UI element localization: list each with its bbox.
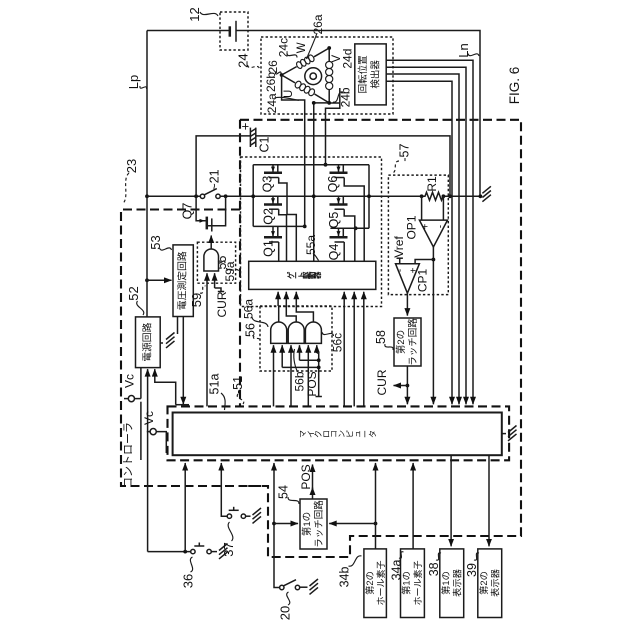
driver input arrows from microcomputer bbox=[343, 292, 345, 407]
transistor Q1 bbox=[272, 226, 274, 236]
transistor Q5 bbox=[338, 196, 340, 203]
wire switch 20 to microcomputer and latch 54 bbox=[274, 463, 280, 588]
microcomputer ground bbox=[502, 433, 506, 435]
transistor Q3 bbox=[272, 165, 274, 172]
svg-text:-: - bbox=[395, 269, 406, 272]
svg-text:26b: 26b bbox=[264, 72, 278, 92]
wire Lp vertical down bbox=[146, 31, 148, 197]
motor delta winding edges bbox=[314, 48, 329, 57]
svg-text:CUR: CUR bbox=[215, 291, 229, 317]
svg-text:検出器: 検出器 bbox=[370, 60, 382, 89]
wire to switch 36 bbox=[148, 551, 191, 553]
motor phase lead to mid rail bbox=[314, 103, 329, 261]
svg-text:表示器: 表示器 bbox=[490, 568, 501, 597]
dashed box 23 controller bbox=[121, 210, 268, 487]
AND gate output wires bbox=[278, 306, 280, 322]
display 38 box bbox=[440, 549, 464, 618]
wire 53 to ground bbox=[177, 317, 179, 335]
wire microcomputer to display 39 bbox=[488, 455, 490, 546]
Q1 gate lead bbox=[278, 242, 280, 261]
svg-text:+: + bbox=[420, 224, 431, 230]
svg-text:20: 20 bbox=[278, 606, 293, 620]
rotor 26 bbox=[305, 68, 322, 85]
svg-text:36: 36 bbox=[181, 574, 196, 588]
svg-text:52: 52 bbox=[126, 286, 141, 300]
dashed box 51 microcomputer unit bbox=[168, 406, 510, 460]
svg-text:器: 器 bbox=[313, 271, 322, 280]
AND gate 56a bbox=[271, 322, 287, 343]
transistor Q4 bbox=[338, 228, 340, 236]
battery 12 plates bbox=[229, 26, 232, 36]
svg-text:ホール素子: ホール素子 bbox=[412, 560, 423, 605]
wire battery into 52 bbox=[146, 196, 148, 317]
microcomputer 51a box bbox=[173, 413, 502, 456]
wire below Vc terminal 1 bbox=[140, 402, 142, 460]
svg-text:Q6: Q6 bbox=[326, 176, 340, 193]
svg-text:FIG. 6: FIG. 6 bbox=[507, 67, 522, 105]
svg-text:59: 59 bbox=[189, 293, 204, 307]
svg-text:54: 54 bbox=[277, 485, 291, 499]
latch 54 arrow from hall line bbox=[374, 522, 378, 526]
wire into 52 from right bbox=[155, 369, 176, 405]
comparator CP1 bbox=[396, 264, 420, 294]
latch circuit 58 box bbox=[394, 318, 421, 366]
svg-text:回転位置: 回転位置 bbox=[357, 55, 369, 93]
dashed box 55 inverter bbox=[241, 157, 382, 307]
op-amp OP1 bbox=[419, 220, 447, 247]
ground rail right bbox=[479, 194, 483, 198]
CUR branch arrow bbox=[394, 385, 408, 387]
Q2 gate lead bbox=[279, 209, 287, 261]
display 39 box bbox=[478, 549, 502, 618]
transistor Q2 bbox=[272, 196, 274, 203]
Vref lead bbox=[399, 258, 401, 264]
switch 21 bbox=[145, 194, 149, 198]
svg-text:26: 26 bbox=[266, 60, 280, 74]
svg-text:24a: 24a bbox=[265, 93, 279, 113]
svg-text:POS: POS bbox=[305, 371, 319, 396]
svg-text:POS: POS bbox=[299, 464, 313, 489]
AND gate 59a bbox=[204, 249, 219, 271]
rotation position detector box 24d bbox=[355, 44, 386, 105]
svg-text:Lp: Lp bbox=[126, 75, 141, 89]
dashed box 1 outline bbox=[240, 120, 521, 557]
wire battery right to Ln corner bbox=[236, 31, 480, 197]
CP1 output to latch 58 bbox=[406, 293, 408, 315]
svg-text:+: + bbox=[238, 123, 253, 131]
svg-text:~21: ~21 bbox=[208, 169, 222, 190]
switch 20 bbox=[280, 585, 284, 589]
wire hall 34a to microcomputer bbox=[412, 463, 414, 549]
svg-text:Q7: Q7 bbox=[181, 203, 195, 220]
switch 37 bbox=[227, 514, 231, 518]
svg-text:24c: 24c bbox=[276, 38, 290, 57]
node H3 right bbox=[330, 227, 369, 229]
svg-text:37: 37 bbox=[221, 542, 236, 556]
latch 54 POS output to microcomputer bbox=[312, 488, 314, 500]
svg-text:Q3: Q3 bbox=[261, 176, 275, 193]
resistor R1 bbox=[422, 192, 447, 200]
CUR stub at 59a bbox=[215, 288, 221, 292]
svg-text:CUR: CUR bbox=[375, 369, 389, 395]
wire battery left Lp bbox=[147, 30, 230, 32]
svg-text:第1の: 第1の bbox=[301, 512, 313, 536]
inverter top rail bbox=[253, 164, 369, 166]
switch 37 ground bbox=[246, 515, 251, 517]
battery 12 dashed enclosure bbox=[220, 12, 248, 50]
svg-text:第2の: 第2の bbox=[364, 571, 375, 595]
svg-text:56: 56 bbox=[244, 323, 258, 337]
svg-text:ラッチ回路: ラッチ回路 bbox=[313, 500, 325, 548]
motor 24 dashed enclosure bbox=[261, 37, 393, 114]
Q6 gate lead bbox=[344, 178, 364, 262]
svg-text:U: U bbox=[283, 90, 295, 98]
wire microcomputer to display 38 bbox=[450, 455, 452, 546]
AND gate left inputs from microcomputer bbox=[273, 345, 275, 406]
latch 58 output wire CUR bbox=[406, 366, 408, 404]
svg-text:59a: 59a bbox=[223, 261, 237, 281]
voltage measuring circuit 53 box bbox=[173, 245, 193, 317]
Q4 gate lead bbox=[343, 242, 345, 261]
svg-text:タ: タ bbox=[369, 430, 378, 438]
gate driver box 55a bbox=[249, 261, 376, 289]
svg-text:24d: 24d bbox=[341, 49, 355, 69]
inverter left bypass wire bbox=[252, 165, 254, 227]
wire C1 to rail right bbox=[256, 136, 450, 196]
svg-text:56a: 56a bbox=[242, 299, 256, 319]
wire 52 to Vc terminal 1 bbox=[140, 368, 142, 399]
svg-text:ラッチ回路: ラッチ回路 bbox=[407, 318, 419, 366]
svg-text:55a: 55a bbox=[304, 235, 318, 255]
svg-text:第1の: 第1の bbox=[440, 571, 451, 595]
svg-text:56c: 56c bbox=[331, 333, 345, 352]
svg-text:23: 23 bbox=[124, 159, 139, 173]
svg-text:26a: 26a bbox=[311, 14, 325, 34]
wire OP1 out to CP1 bbox=[415, 260, 433, 264]
ground at 52 right bbox=[160, 342, 163, 344]
OP1 input leads bbox=[421, 196, 423, 220]
POS net wiring bbox=[282, 366, 319, 368]
Q7 gate lead bbox=[211, 226, 213, 232]
svg-text:Q4: Q4 bbox=[327, 244, 341, 261]
dashed box 56 bbox=[260, 306, 332, 371]
svg-text:OP1: OP1 bbox=[405, 215, 419, 239]
svg-text:Q5: Q5 bbox=[327, 212, 341, 229]
svg-text:34a: 34a bbox=[389, 560, 403, 581]
svg-text:Q2: Q2 bbox=[262, 208, 276, 225]
svg-text:58: 58 bbox=[374, 330, 388, 344]
coil 26a winding W bbox=[307, 54, 315, 63]
svg-text:第2の: 第2の bbox=[478, 571, 489, 595]
Q5 gate lead bbox=[344, 209, 355, 261]
rotation detector lines from detector to microcomputer bbox=[386, 60, 473, 404]
Vc terminal 1 bbox=[124, 398, 128, 400]
wire into 52 from switch line bbox=[147, 369, 149, 551]
svg-text:12: 12 bbox=[187, 7, 202, 21]
wire switch 37 to microcomputer bbox=[221, 463, 227, 516]
svg-text:-51: -51 bbox=[231, 376, 245, 394]
driver input arrows from AND gates bbox=[277, 292, 279, 306]
svg-text:第2の: 第2の bbox=[395, 330, 407, 354]
Q3 gate lead bbox=[279, 178, 297, 262]
svg-text:34b: 34b bbox=[337, 567, 351, 588]
svg-text:W: W bbox=[296, 42, 308, 53]
svg-text:表示器: 表示器 bbox=[452, 568, 463, 597]
59a output arrow to Q7 gate bbox=[210, 236, 212, 250]
OP1 output wire bbox=[432, 247, 434, 404]
svg-text:電源回路: 電源回路 bbox=[140, 322, 153, 361]
svg-text:-: - bbox=[436, 225, 447, 228]
motor phase wire to inverter top rail bbox=[326, 103, 340, 165]
hall element 34a box bbox=[401, 549, 425, 618]
coil 26b winding U bbox=[282, 75, 296, 83]
node H3 left bbox=[253, 225, 305, 227]
wire hall 34b to microcomputer bbox=[375, 463, 377, 549]
capacitor C1 wire positive bbox=[196, 136, 250, 196]
svg-text:53: 53 bbox=[148, 235, 163, 249]
svg-text:-57: -57 bbox=[398, 144, 412, 162]
svg-text:51a: 51a bbox=[208, 374, 222, 395]
switch 36 ground bbox=[211, 551, 217, 553]
dashed box 57 bbox=[388, 175, 448, 295]
dashed box 59 bbox=[197, 242, 235, 283]
transistor Q7 bypass bbox=[196, 196, 206, 221]
svg-text:39: 39 bbox=[465, 563, 479, 577]
coil 26c winding V bbox=[328, 48, 330, 62]
svg-text:Q1: Q1 bbox=[262, 240, 276, 257]
svg-text:Vref: Vref bbox=[392, 236, 406, 258]
svg-text:R1: R1 bbox=[425, 176, 439, 192]
svg-text:コントローラ: コントローラ bbox=[123, 422, 135, 488]
svg-text:電圧測定回路: 電圧測定回路 bbox=[176, 251, 189, 310]
switch 20 ground bbox=[300, 586, 308, 588]
AND gate 56c bbox=[305, 322, 321, 343]
svg-text:CP1: CP1 bbox=[416, 269, 430, 293]
59a inputs bbox=[206, 273, 208, 406]
svg-text:C1: C1 bbox=[258, 136, 272, 152]
svg-text:Vc: Vc bbox=[142, 411, 156, 425]
svg-text:Vc: Vc bbox=[123, 374, 137, 388]
motor terminal dots bbox=[280, 73, 284, 77]
wire switch 36 to microcomputer bbox=[184, 463, 186, 552]
latch circuit 54 box bbox=[300, 499, 327, 549]
svg-text:ホール素子: ホール素子 bbox=[375, 560, 386, 605]
AND gate right inputs POS net bbox=[281, 345, 283, 367]
ground shared 52 53 bbox=[166, 333, 175, 340]
wire 53 to microcomputer bbox=[182, 317, 184, 405]
hall element 34b box bbox=[364, 549, 387, 618]
svg-text:56b: 56b bbox=[293, 371, 307, 391]
svg-text:38: 38 bbox=[427, 562, 441, 576]
power supply circuit 52 box bbox=[136, 317, 161, 368]
wire into 53 bbox=[145, 278, 149, 282]
inverter right bypass wire bbox=[368, 165, 370, 229]
capacitor C1 bbox=[249, 128, 251, 147]
transistor Q6 bbox=[338, 165, 340, 172]
switch 36 bbox=[191, 549, 195, 553]
dashed box 1 left edge bbox=[239, 120, 241, 407]
motor phase lead U to inverter bbox=[282, 75, 305, 226]
AND gate 56b bbox=[288, 322, 304, 343]
